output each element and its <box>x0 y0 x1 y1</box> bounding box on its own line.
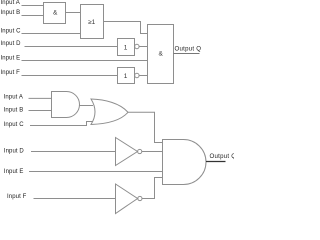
svg-text:Input B: Input B <box>1 10 21 16</box>
wire output Q bottom <box>206 161 226 163</box>
svg-text:Input D: Input D <box>1 41 22 47</box>
svg-text:Input C: Input C <box>1 28 22 34</box>
wire U3 output <box>139 46 147 48</box>
svg-text:Input B: Input B <box>4 107 24 113</box>
svg-text:1: 1 <box>124 44 128 51</box>
OR gate G2 <box>91 99 128 125</box>
svg-text:Output Q: Output Q <box>175 46 202 53</box>
svg-text:Input D: Input D <box>4 149 25 155</box>
bubble G4 <box>138 196 142 200</box>
svg-text:&: & <box>159 51 164 58</box>
wire input F bottom <box>34 198 116 200</box>
wire output Q top <box>174 53 200 55</box>
svg-text:Input E: Input E <box>1 55 21 61</box>
OR gate U2 (IEC box) <box>81 5 104 39</box>
bubble U3 <box>135 44 139 48</box>
wire input D top <box>25 46 118 48</box>
svg-text:Output Q: Output Q <box>210 153 235 160</box>
wire U4 output <box>139 75 147 77</box>
svg-text:Input E: Input E <box>4 169 24 175</box>
AND gate G5 (4-input) <box>163 140 206 185</box>
AND gate U5 (IEC box 4-input) <box>148 25 174 84</box>
svg-text:Input A: Input A <box>1 0 20 6</box>
inverter G3 (input D) <box>116 138 138 166</box>
wire U2 output to U5 <box>104 22 148 34</box>
svg-text:1: 1 <box>124 73 128 80</box>
svg-text:Input C: Input C <box>4 122 25 128</box>
wire input A top <box>22 5 44 7</box>
inverter G4 (input F) <box>116 184 138 214</box>
bubble U4 <box>135 73 139 77</box>
wire input F top <box>22 75 118 77</box>
wire input C bottom <box>30 122 93 126</box>
inverter U4 (IEC box, input F) <box>118 68 135 84</box>
AND gate G1 <box>52 92 80 118</box>
wire input D bottom <box>31 151 116 153</box>
svg-text:Input A: Input A <box>4 94 23 100</box>
wire input E top <box>22 60 148 62</box>
wire G4 output to G5 <box>142 178 163 199</box>
wire input B bottom <box>29 110 52 112</box>
svg-text:≥1: ≥1 <box>88 19 96 26</box>
AND gate U1 (IEC box) <box>44 3 66 24</box>
bubble G3 <box>138 149 142 153</box>
wire G1 output to G2 <box>79 105 93 107</box>
wire input B top <box>22 15 44 17</box>
svg-text:&: & <box>53 10 58 17</box>
wire input A bottom <box>29 97 52 99</box>
wire G3 output <box>142 151 163 153</box>
wire input E bottom <box>29 171 163 173</box>
svg-text:Input F: Input F <box>7 194 27 200</box>
svg-text:Input F: Input F <box>1 70 21 76</box>
inverter U3 (IEC box, input D) <box>118 39 135 56</box>
wire input C top <box>22 33 81 35</box>
wire G2 output to G5 <box>128 112 163 142</box>
wire U1 output to U2 <box>66 12 81 14</box>
